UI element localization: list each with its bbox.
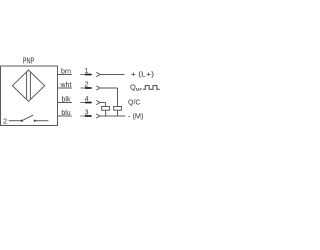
label blu xyxy=(61,110,70,117)
svg-text:Q/C: Q/C xyxy=(128,97,141,106)
diamond inner line right xyxy=(29,72,31,99)
pin 2 wire segment xyxy=(80,87,91,89)
switch S1 left lead wire xyxy=(9,120,22,122)
connector pin 4 xyxy=(96,100,100,104)
svg-text:MF: MF xyxy=(136,87,143,92)
svg-text:brn: brn xyxy=(61,68,71,75)
wire blu stub xyxy=(58,115,72,117)
svg-text:2: 2 xyxy=(85,82,89,89)
pin number 4 xyxy=(85,96,89,103)
load resistor R1 xyxy=(102,107,110,111)
sensor box U1 xyxy=(1,66,58,126)
svg-text:4: 4 xyxy=(85,96,89,103)
svg-text:- (M): - (M) xyxy=(128,112,144,121)
switch S1 right lead wire xyxy=(35,120,49,122)
pin number 1 xyxy=(85,68,89,75)
connector pin 2 xyxy=(96,86,100,90)
switch S1 pivot dot xyxy=(21,120,23,122)
switch S1 blade xyxy=(22,115,33,121)
wire pin4 horizontal xyxy=(100,102,106,104)
wire pin4 drop to load R1 xyxy=(105,103,107,107)
wire pin3 to M xyxy=(100,115,126,117)
svg-text:blu: blu xyxy=(61,110,70,117)
label 2 (switch terminal) xyxy=(3,116,7,125)
wire pin1 to L+ xyxy=(100,74,125,76)
pin 3 wire segment xyxy=(80,115,91,117)
pin number 2 xyxy=(85,82,89,89)
label PNP xyxy=(23,57,35,66)
diamond inner line left xyxy=(26,72,28,100)
label blk xyxy=(62,96,71,103)
svg-text:2: 2 xyxy=(3,116,7,125)
terminal label - (M) xyxy=(128,112,144,121)
connector pin 1 xyxy=(96,72,100,76)
wire brn stub xyxy=(58,74,72,76)
output label Q xyxy=(130,83,136,92)
svg-text:3: 3 xyxy=(85,110,89,117)
terminal label Q/C xyxy=(128,97,141,106)
terminal label + (L+) xyxy=(131,70,155,79)
wire wht stub xyxy=(58,87,72,89)
label brn xyxy=(61,68,71,75)
wire pin2 drop to load R2 xyxy=(117,88,119,107)
pin 4 wire segment xyxy=(80,102,91,104)
wire blk stub xyxy=(58,102,72,104)
wire R1 to blu line xyxy=(105,110,107,116)
wire pin2 horizontal xyxy=(100,87,118,89)
label wht xyxy=(60,82,72,89)
connector pin 3 xyxy=(96,114,100,118)
svg-text:PNP: PNP xyxy=(23,57,35,66)
svg-text:wht: wht xyxy=(60,82,72,89)
load resistor R2 xyxy=(114,107,122,111)
switch S1 fixed contact dot xyxy=(34,120,36,122)
svg-text:1: 1 xyxy=(85,68,89,75)
svg-text:+ (L+): + (L+) xyxy=(131,70,155,79)
svg-text:blk: blk xyxy=(62,96,71,103)
output label subscript MF xyxy=(136,87,143,92)
proximity sensor symbol (diamond) xyxy=(12,70,44,101)
wire R2 to blu line xyxy=(117,110,119,116)
output waveform symbol xyxy=(143,86,160,90)
pin number 3 xyxy=(85,110,89,117)
pin 1 wire segment xyxy=(80,74,91,76)
